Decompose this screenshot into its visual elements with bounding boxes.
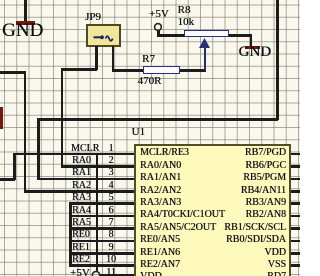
- pin RA1/AN1: [140, 173, 181, 183]
- label R8: [178, 5, 191, 16]
- value 470R: [138, 76, 162, 87]
- pin RB3/AN9: [186, 198, 286, 208]
- ground bar GND1: [16, 21, 35, 25]
- pin RB0/SDI/SDA: [186, 235, 286, 245]
- net label RA4: [72, 206, 91, 216]
- pin RD7: [186, 272, 286, 276]
- wire pot right: [229, 34, 252, 37]
- pin number 9: [104, 243, 118, 253]
- stub pin 40: [291, 153, 300, 156]
- label U1: [132, 127, 145, 138]
- label R7: [142, 54, 155, 65]
- potentiometer R8: [184, 30, 228, 37]
- net label RA1: [72, 168, 91, 178]
- pin RA4/T0CKI/C1OUT: [140, 210, 225, 220]
- wire RA3 row: [69, 202, 134, 205]
- stub pin 33: [291, 240, 300, 243]
- power +5V (top): [149, 9, 169, 20]
- pin RB7/PGD: [186, 148, 286, 158]
- pin VDD (left, pin 11): [140, 272, 162, 276]
- stub pin 31: [291, 264, 300, 267]
- wire +5V down: [157, 30, 160, 36]
- +5V circle bottom: [89, 268, 103, 276]
- wire RE0 row: [69, 240, 134, 243]
- ground bar GND2: [245, 46, 260, 49]
- wire R7 right: [180, 69, 206, 72]
- wire down to GND2: [250, 34, 253, 46]
- pin RE2/AN7: [140, 260, 180, 270]
- wire +5V to pot: [157, 34, 185, 37]
- wire RA4 row: [69, 215, 134, 218]
- JP9 inner symbol: [86, 24, 121, 47]
- wire vertical to RA2: [24, 71, 27, 192]
- net label RE0: [72, 230, 90, 240]
- wire RA0 row: [61, 165, 135, 168]
- net label RA3: [72, 193, 91, 203]
- pin VSS: [186, 260, 286, 270]
- pin number 6: [104, 206, 118, 216]
- wire RA2 row: [24, 190, 135, 193]
- wire JP9 pin1 down: [95, 46, 98, 70]
- pin RA5/AN5/C2OUT: [140, 223, 216, 233]
- power +5V (pin 11): [70, 268, 90, 276]
- wire RE1 row: [69, 252, 134, 255]
- wire pin11: [100, 274, 135, 276]
- wire RA1 row: [37, 178, 134, 181]
- value 10k: [178, 17, 195, 28]
- left-edge clipped element: [0, 107, 3, 129]
- wire: [24, 0, 27, 22]
- connector JP9: [86, 24, 121, 47]
- wire vertical MCLR to +5V port: [96, 153, 99, 271]
- net label RA2: [72, 181, 91, 191]
- wire JP9 pin2 to R7: [112, 69, 144, 72]
- R8 wiper arrow: [196, 36, 214, 50]
- label GND1: [2, 21, 43, 40]
- stub pin 34: [291, 227, 300, 230]
- net label RE1: [72, 243, 90, 253]
- wire big horizontal: [37, 118, 278, 121]
- pin number 5: [104, 193, 118, 203]
- label GND2: [239, 45, 272, 60]
- pin RB4/AN11: [186, 186, 286, 196]
- stub pin 32: [291, 252, 300, 255]
- wire RE2 row: [69, 264, 134, 267]
- net label MCLR: [71, 144, 99, 154]
- wire big vertical right: [276, 0, 279, 120]
- pin RB6/PGC: [186, 161, 286, 171]
- stub pin 35: [291, 215, 300, 218]
- pin number 11: [104, 268, 118, 276]
- pin RE0/AN5: [140, 235, 180, 245]
- IC U1 body: [134, 144, 291, 276]
- pin RA2/AN2: [140, 186, 181, 196]
- wire RA5 row: [69, 227, 134, 230]
- pin number 7: [104, 218, 118, 228]
- pin RE1/AN6: [140, 248, 180, 258]
- pin RB5/PGM: [186, 173, 286, 183]
- +5V circle: [151, 20, 165, 34]
- wire vertical to RA1: [37, 118, 40, 180]
- pin number 1: [104, 144, 118, 154]
- pin MCLR/RE3: [140, 148, 189, 158]
- wire left-edge entry (MCLR net): [0, 178, 15, 181]
- stub pin 38: [291, 178, 300, 181]
- pin number 10: [104, 255, 118, 265]
- stub pin 37: [291, 190, 300, 193]
- wire MCLR row: [13, 153, 134, 156]
- stub pin 36: [291, 202, 300, 205]
- pin RA3/AN3: [140, 198, 181, 208]
- pin RA0/AN0: [140, 161, 181, 171]
- pin number 2: [104, 156, 118, 166]
- pin VDD (right): [186, 248, 286, 258]
- wire JP9 pin2 down: [112, 46, 115, 71]
- net label RA0: [72, 156, 91, 166]
- pin number 3: [104, 168, 118, 178]
- wire left-edge entry (RA2 net): [0, 71, 25, 74]
- wire vertical MCLR: [13, 153, 16, 180]
- pin RB1/SCK/SCL: [186, 223, 286, 233]
- wire JP9 pin1 horizontal: [61, 68, 97, 71]
- wire vertical to RA0: [61, 68, 64, 167]
- pin number 4: [104, 181, 118, 191]
- net label RE2: [72, 255, 90, 265]
- pin RB2/AN8: [186, 210, 286, 220]
- stub pin 39: [291, 165, 300, 168]
- wire vertical bus RA3-RE2: [69, 202, 72, 266]
- wire up to wiper: [204, 46, 207, 71]
- net label RA5: [72, 218, 91, 228]
- pin number 8: [104, 230, 118, 240]
- label JP9: [85, 12, 101, 23]
- resistor R7: [143, 66, 180, 73]
